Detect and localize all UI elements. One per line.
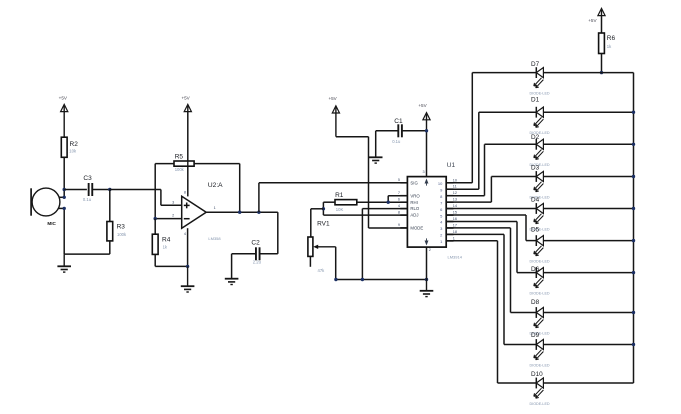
wire C2 to ground bbox=[232, 253, 256, 255]
svg-text:100k: 100k bbox=[117, 232, 127, 237]
svg-text:+5V: +5V bbox=[328, 96, 337, 101]
svg-text:DIODE-LED: DIODE-LED bbox=[530, 291, 550, 295]
wire D9 to bus bbox=[543, 344, 633, 346]
svg-text:C3: C3 bbox=[83, 175, 92, 182]
wire pin to LED row y=72.6 bbox=[446, 182, 472, 184]
svg-text:D4: D4 bbox=[531, 197, 540, 204]
svg-text:DIODE-LED: DIODE-LED bbox=[530, 259, 550, 263]
svg-text:16: 16 bbox=[453, 217, 457, 221]
resistor R6 bbox=[601, 16, 603, 33]
svg-text:10: 10 bbox=[438, 181, 443, 186]
node output/SIG bbox=[257, 211, 260, 214]
svg-text:3: 3 bbox=[422, 170, 424, 174]
svg-text:D3: D3 bbox=[531, 165, 540, 172]
pin 1 LED1 stub bbox=[446, 240, 453, 242]
potentiometer RV1 bbox=[308, 237, 313, 256]
wire output row bbox=[206, 211, 278, 213]
wire ADJ row bbox=[323, 214, 407, 216]
wire R4 bottom to ground node bbox=[154, 254, 156, 266]
pin 10 LED10 stub bbox=[446, 182, 453, 184]
resistor R5 feedback bbox=[155, 163, 174, 165]
node bus/D2 bbox=[632, 143, 635, 146]
svg-text:C2: C2 bbox=[251, 240, 260, 247]
svg-text:+5V: +5V bbox=[181, 95, 190, 100]
svg-text:18: 18 bbox=[453, 230, 457, 234]
wire pin to LED row y=383.0 bbox=[446, 240, 497, 242]
LED D1 bbox=[530, 97, 550, 135]
wire mic pin upper bbox=[59, 196, 65, 198]
svg-text:12: 12 bbox=[453, 191, 457, 195]
wire pin to LED row y=272.6 bbox=[446, 221, 517, 223]
svg-text:LM3914: LM3914 bbox=[448, 255, 463, 260]
svg-text:2.2u: 2.2u bbox=[253, 260, 262, 265]
microphone MIC bbox=[32, 188, 60, 216]
wire R2 to mic node bbox=[63, 157, 65, 197]
wire D7 to bus bbox=[543, 72, 633, 74]
svg-text:ADJ: ADJ bbox=[410, 213, 418, 218]
svg-text:LM358: LM358 bbox=[208, 236, 221, 241]
node bus/D5 bbox=[632, 239, 635, 242]
svg-text:D6: D6 bbox=[531, 266, 540, 273]
pin 8 ADJ bbox=[400, 214, 407, 216]
svg-text:+5V: +5V bbox=[418, 103, 427, 108]
wire R6 to LED bus bbox=[601, 54, 603, 73]
wire ground row bbox=[336, 279, 427, 281]
node R1/RV1/ADJ bbox=[322, 207, 325, 210]
svg-text:R4: R4 bbox=[162, 237, 171, 244]
wire +5V/C1 to U1 V+ bbox=[402, 130, 427, 132]
wire +5V to op-amp pin 8 bbox=[187, 112, 189, 197]
svg-text:14: 14 bbox=[453, 204, 457, 208]
node R6/D7 row bbox=[600, 71, 603, 74]
pin 15 LED5 stub bbox=[446, 214, 453, 216]
wire route to +input bbox=[160, 190, 162, 206]
wire mic to ground node bbox=[63, 208, 65, 254]
svg-text:15: 15 bbox=[453, 211, 457, 215]
wire D2 to bus bbox=[543, 143, 633, 145]
LED D5 bbox=[530, 227, 550, 264]
node bus/D3 bbox=[632, 175, 635, 178]
wire inverting input bbox=[155, 218, 182, 220]
wire output to SIG row bbox=[258, 183, 260, 212]
svg-text:10: 10 bbox=[453, 178, 457, 182]
svg-text:R5: R5 bbox=[175, 154, 184, 161]
svg-text:D8: D8 bbox=[531, 299, 540, 306]
power +5V (mic bias) bbox=[61, 104, 68, 111]
resistor R4 bbox=[154, 219, 156, 235]
wire D6 to bus bbox=[543, 272, 633, 274]
pin 13 LED7 stub bbox=[446, 201, 453, 203]
svg-text:3: 3 bbox=[172, 200, 174, 204]
node mic bias junction bbox=[62, 188, 65, 191]
resistor R1 bbox=[335, 200, 357, 205]
wire R5 left to inverting node bbox=[154, 164, 156, 219]
svg-text:9: 9 bbox=[398, 223, 400, 227]
wire RLO row bbox=[362, 208, 407, 210]
IC U1 LM3914 bbox=[407, 177, 446, 248]
node wiper/ground row bbox=[334, 278, 337, 281]
svg-text:2: 2 bbox=[429, 248, 431, 252]
wire wiper to ground row bbox=[335, 247, 337, 280]
svg-text:R2: R2 bbox=[70, 141, 79, 148]
ground (op-amp) bbox=[187, 266, 189, 286]
LED D8 bbox=[530, 299, 550, 335]
power +5V (U1) bbox=[423, 113, 430, 120]
svg-text:1: 1 bbox=[214, 206, 216, 210]
wire mic pin lower bbox=[58, 207, 64, 209]
svg-text:U2:A: U2:A bbox=[208, 182, 223, 189]
pin 18 LED2 stub bbox=[446, 233, 453, 235]
svg-text:10k: 10k bbox=[69, 149, 77, 154]
wire to RV1 top bbox=[311, 208, 324, 210]
ground (mic) bbox=[63, 254, 65, 266]
pin 9 MODE bbox=[400, 227, 407, 229]
pin 16 LED4 stub bbox=[446, 221, 453, 223]
svg-text:17: 17 bbox=[453, 224, 457, 228]
power +5V (op-amp) bbox=[184, 104, 191, 111]
wire D3 to bus bbox=[543, 176, 633, 178]
wire D10 to bus bbox=[543, 382, 633, 384]
node V-/ground row bbox=[425, 278, 428, 281]
LED D2 bbox=[530, 134, 550, 167]
node output/R5 bbox=[238, 211, 241, 214]
node bus/D8 bbox=[632, 311, 635, 314]
LED D6 bbox=[530, 266, 550, 295]
pin 7 VRO bbox=[400, 195, 407, 197]
RV1 bottom stub bbox=[309, 256, 311, 266]
power +5V (mode) bbox=[332, 106, 339, 113]
wire node to opamp route bbox=[110, 189, 161, 191]
node bus/D9 bbox=[632, 343, 635, 346]
svg-text:MODE: MODE bbox=[410, 226, 423, 231]
pin 12 LED8 stub bbox=[446, 195, 453, 197]
svg-text:11: 11 bbox=[453, 185, 457, 189]
pin 6 RHI bbox=[400, 201, 407, 203]
wire pin 14 to D4 row bbox=[446, 208, 536, 210]
svg-text:8: 8 bbox=[398, 210, 400, 214]
svg-text:R1: R1 bbox=[335, 192, 344, 199]
node bus/D4 bbox=[632, 207, 635, 210]
svg-text:D1: D1 bbox=[531, 97, 540, 104]
svg-text:D10: D10 bbox=[531, 371, 543, 378]
svg-text:4: 4 bbox=[184, 232, 186, 236]
node bus/D6 bbox=[632, 271, 635, 274]
pin 11 LED9 stub bbox=[446, 188, 453, 190]
wire VRO to RHI bbox=[388, 195, 407, 197]
wire C1 left to ground bbox=[376, 130, 399, 132]
svg-text:0.1u: 0.1u bbox=[83, 197, 92, 202]
ground (C2) bbox=[231, 278, 233, 280]
node C3/R3 junction bbox=[108, 188, 111, 191]
wire D8 to bus bbox=[543, 312, 633, 314]
svg-text:R6: R6 bbox=[607, 35, 616, 42]
svg-text:D9: D9 bbox=[531, 332, 540, 339]
wire pin to LED row y=144.3 bbox=[446, 195, 484, 197]
node C1/V+ junction bbox=[425, 129, 428, 132]
svg-text:U1: U1 bbox=[447, 162, 456, 169]
node RLO/ground row bbox=[361, 278, 364, 281]
wire R3 bottom to mic ground bbox=[109, 241, 111, 254]
wire signal row to U1 SIG bbox=[259, 182, 408, 184]
svg-text:2: 2 bbox=[172, 214, 174, 218]
wire pin to LED row y=112.2 bbox=[446, 188, 479, 190]
svg-text:6: 6 bbox=[398, 197, 400, 201]
resistor R3 bbox=[109, 190, 111, 222]
svg-text:13: 13 bbox=[453, 198, 457, 202]
svg-text:7: 7 bbox=[398, 191, 400, 195]
svg-text:+5V: +5V bbox=[59, 95, 68, 100]
ground (C1) bbox=[375, 156, 377, 158]
wire pin to LED row y=344.5 bbox=[446, 233, 504, 235]
LED D3 bbox=[530, 165, 550, 200]
wire +5V to MODE bbox=[336, 136, 369, 138]
LED bus right bbox=[633, 73, 635, 383]
capacitor C3 bbox=[88, 183, 90, 196]
svg-text:1: 1 bbox=[453, 236, 455, 240]
wire D5 to bus bbox=[543, 240, 633, 242]
svg-text:8: 8 bbox=[184, 191, 186, 195]
wire output to C2 bbox=[277, 212, 279, 254]
node inverting input bbox=[154, 217, 157, 220]
wire U1 V- down bbox=[426, 247, 428, 279]
svg-text:D2: D2 bbox=[531, 134, 540, 141]
svg-text:5: 5 bbox=[398, 178, 400, 182]
pin 2 V- marker bbox=[425, 238, 428, 244]
LED D9 bbox=[530, 332, 550, 367]
svg-text:C1: C1 bbox=[394, 118, 403, 125]
node pin4/R4 bbox=[186, 265, 189, 268]
ground (U1) bbox=[426, 280, 428, 291]
svg-text:D5: D5 bbox=[531, 227, 540, 234]
wire pin to LED row y=312.5 bbox=[446, 227, 510, 229]
LED D7 bbox=[530, 61, 550, 95]
svg-text:DIODE-LED: DIODE-LED bbox=[530, 402, 550, 406]
wire pin to LED row y=240.6 bbox=[446, 214, 526, 216]
wire R5 right to output node bbox=[239, 164, 241, 213]
svg-text:R3: R3 bbox=[117, 224, 126, 231]
capacitor C1 bbox=[397, 124, 399, 137]
wire pin to LED row y=176.5 bbox=[446, 201, 491, 203]
svg-text:SIG: SIG bbox=[410, 180, 418, 185]
wire MODE row bbox=[369, 227, 408, 229]
LED D10 bbox=[530, 371, 550, 406]
capacitor C2 bbox=[255, 247, 257, 260]
power +5V (LED supply) bbox=[598, 8, 605, 15]
wire D4 to bus bbox=[543, 208, 633, 210]
wire R1 right to RHI row bbox=[357, 201, 408, 203]
pin 17 LED3 stub bbox=[446, 227, 453, 229]
RV1 wiper arrow bbox=[317, 246, 336, 248]
svg-text:D7: D7 bbox=[531, 61, 540, 68]
svg-text:DIODE-LED: DIODE-LED bbox=[530, 363, 550, 367]
pin 5 SIG bbox=[400, 182, 407, 184]
svg-text:10K: 10K bbox=[336, 207, 344, 212]
svg-text:RLO: RLO bbox=[410, 206, 419, 211]
svg-text:VRO: VRO bbox=[410, 193, 420, 198]
resistor R2 bbox=[61, 137, 67, 157]
wire R1 left branch bbox=[323, 201, 335, 203]
wire op-amp pin 4 down bbox=[187, 228, 189, 266]
svg-text:0.1u: 0.1u bbox=[392, 139, 401, 144]
pin 3 V+ marker bbox=[425, 180, 428, 186]
svg-text:4: 4 bbox=[398, 204, 400, 208]
LED D4 bbox=[530, 197, 550, 232]
node bus/D1 bbox=[632, 111, 635, 114]
op-amp U2:A bbox=[182, 196, 207, 228]
node VRO/RHI bbox=[387, 201, 390, 204]
pin 14 LED6 stub bbox=[446, 208, 453, 210]
svg-text:DIODE-LED: DIODE-LED bbox=[530, 91, 550, 95]
wire signal node to C3 bbox=[64, 189, 87, 191]
wire D1 to bus bbox=[543, 111, 633, 113]
svg-text:100k: 100k bbox=[175, 167, 185, 172]
svg-text:+5V: +5V bbox=[588, 18, 597, 23]
svg-text:MIC: MIC bbox=[47, 221, 56, 226]
pin 4 RLO bbox=[400, 208, 407, 210]
svg-text:47k: 47k bbox=[318, 268, 326, 273]
svg-text:RHI: RHI bbox=[410, 200, 417, 205]
svg-text:RV1: RV1 bbox=[317, 220, 330, 227]
wire C3 to node bbox=[92, 189, 110, 191]
